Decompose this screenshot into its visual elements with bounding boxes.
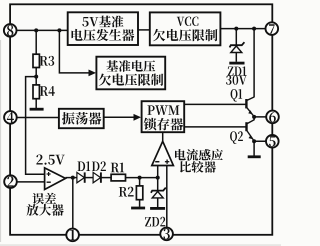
wire ZD1 to ground [235, 53, 237, 62]
node junction on Vref wire (R3 tap) [34, 28, 38, 32]
node Q1 collector tap [252, 27, 256, 31]
label qian dianya xianzhi [153, 29, 218, 41]
label zhendangqi [62, 112, 101, 125]
wire Vref to R3 [35, 30, 37, 54]
resistor R4 [33, 85, 39, 99]
frame border [10, 4, 272, 235]
transistor Q2 [245, 122, 247, 131]
wire comparator output to PWM latch [162, 132, 164, 141]
wire pin2 to error-amp - input [11, 181, 45, 183]
resistor R3 [33, 54, 39, 67]
wire ZD1 tap down [235, 29, 237, 46]
pin 6 [266, 111, 279, 124]
node comparator-input junction [156, 176, 160, 180]
label PWM [148, 105, 180, 115]
label jizhun dianya [106, 60, 155, 72]
wire D2 to R1 [101, 177, 111, 179]
wire divider tap to error-amp + input [26, 77, 45, 175]
resistor R2 [136, 186, 142, 200]
ground below R2 [131, 207, 145, 210]
label D2 [92, 161, 106, 171]
wire ZD2 to ground [157, 198, 159, 207]
block VCC undervoltage limiter [150, 12, 221, 45]
wire to pin5 [254, 140, 272, 142]
wire pin4 to oscillator [10, 117, 59, 119]
wire Q2 emitter to ground [253, 141, 255, 155]
op-amp error amplifier [45, 168, 66, 190]
pin 2 [4, 175, 17, 188]
ground below ZD2 [150, 207, 165, 210]
wire COMP to pin1 [72, 178, 74, 229]
plus sign error amp [47, 173, 51, 175]
zener ZD1 30V [230, 42, 245, 47]
label wucha [32, 193, 56, 205]
wire comparator + input to pin3 [166, 166, 168, 228]
label fangdaqi [27, 204, 64, 216]
minus sign error amp [47, 181, 51, 183]
wire to pin6 [254, 116, 272, 118]
node R3-R4 junction [34, 75, 38, 79]
arrow into reference-UVLO block [89, 70, 97, 77]
wire R1R2 junction down [139, 178, 141, 186]
label D1 [78, 161, 91, 171]
node R1-R2 junction [138, 176, 142, 180]
label 5V jizhun [82, 16, 123, 28]
wire R4 to ground [35, 99, 37, 108]
wire oscillator to PWM latch [104, 116, 137, 118]
label 30V [226, 75, 247, 85]
resistor R1 [111, 174, 125, 181]
wire R2 to ground [139, 200, 141, 207]
label bijiaoqi [180, 161, 216, 173]
wire D1 to D2 [85, 177, 93, 179]
arrow into PWM latch [134, 114, 142, 121]
plus sign comparator [165, 161, 169, 163]
diode D2 [93, 172, 101, 182]
node ZD1 tap [234, 27, 238, 31]
block 5V reference voltage generator [68, 12, 138, 45]
label VCC [177, 17, 199, 26]
diode D1 [77, 172, 85, 182]
label Q1 [231, 89, 243, 102]
scan artifact left edge [0, 40, 1, 242]
wire Vref tap down [59, 30, 89, 73]
label R3 [40, 56, 55, 66]
label R1 [111, 163, 124, 173]
scan artifact bottom edge [0, 244, 281, 245]
wire pin8 to 5V-ref box [10, 29, 67, 31]
wire comparator - input [157, 166, 159, 178]
ground below R4 [30, 108, 44, 111]
label ZD2 [145, 217, 165, 227]
block reference undervoltage limiter [96, 57, 165, 90]
wire PWM latch to Q2 base [184, 126, 246, 128]
ground below Q2 [248, 155, 261, 158]
node COMP junction [71, 176, 75, 180]
pin 8 [4, 24, 17, 37]
label R4 [40, 86, 55, 96]
node output junction [252, 115, 256, 119]
transistor Q1 [245, 99, 247, 108]
label qian dianya xianzhi 2 [99, 74, 164, 86]
pin 4 [4, 111, 17, 124]
wire error-amp output [66, 177, 78, 179]
node junction on Vref wire (UVLO tap) [57, 28, 61, 32]
pin 1 [66, 229, 79, 242]
wire junction to ZD2 [157, 178, 159, 191]
label ZD1 [228, 66, 247, 75]
node emitter-pin5 junction [252, 139, 256, 143]
wire R3 to R4 [35, 68, 37, 85]
label suocunqi [144, 118, 183, 131]
pin 3 [160, 228, 173, 241]
label dianliu ganying [175, 149, 223, 161]
wire R1 to comparator input [126, 177, 158, 179]
wire 5V-ref box to VCC box [138, 29, 150, 31]
label dianya fashengqi [72, 29, 135, 41]
pin 5 [266, 135, 279, 148]
ground below ZD1 [229, 62, 244, 65]
label 2.5V [36, 155, 64, 165]
label R2 [119, 187, 134, 197]
block oscillator [59, 109, 104, 128]
pin 7 [266, 22, 279, 35]
comparator current sense [152, 141, 174, 165]
label Q2 [230, 131, 243, 144]
block PWM latch [142, 101, 185, 132]
wire PWM latch to Q1 base [184, 103, 246, 105]
minus sign comparator [155, 161, 159, 163]
zener ZD2 [151, 188, 166, 193]
wire VCC box to pin7 [220, 28, 271, 30]
